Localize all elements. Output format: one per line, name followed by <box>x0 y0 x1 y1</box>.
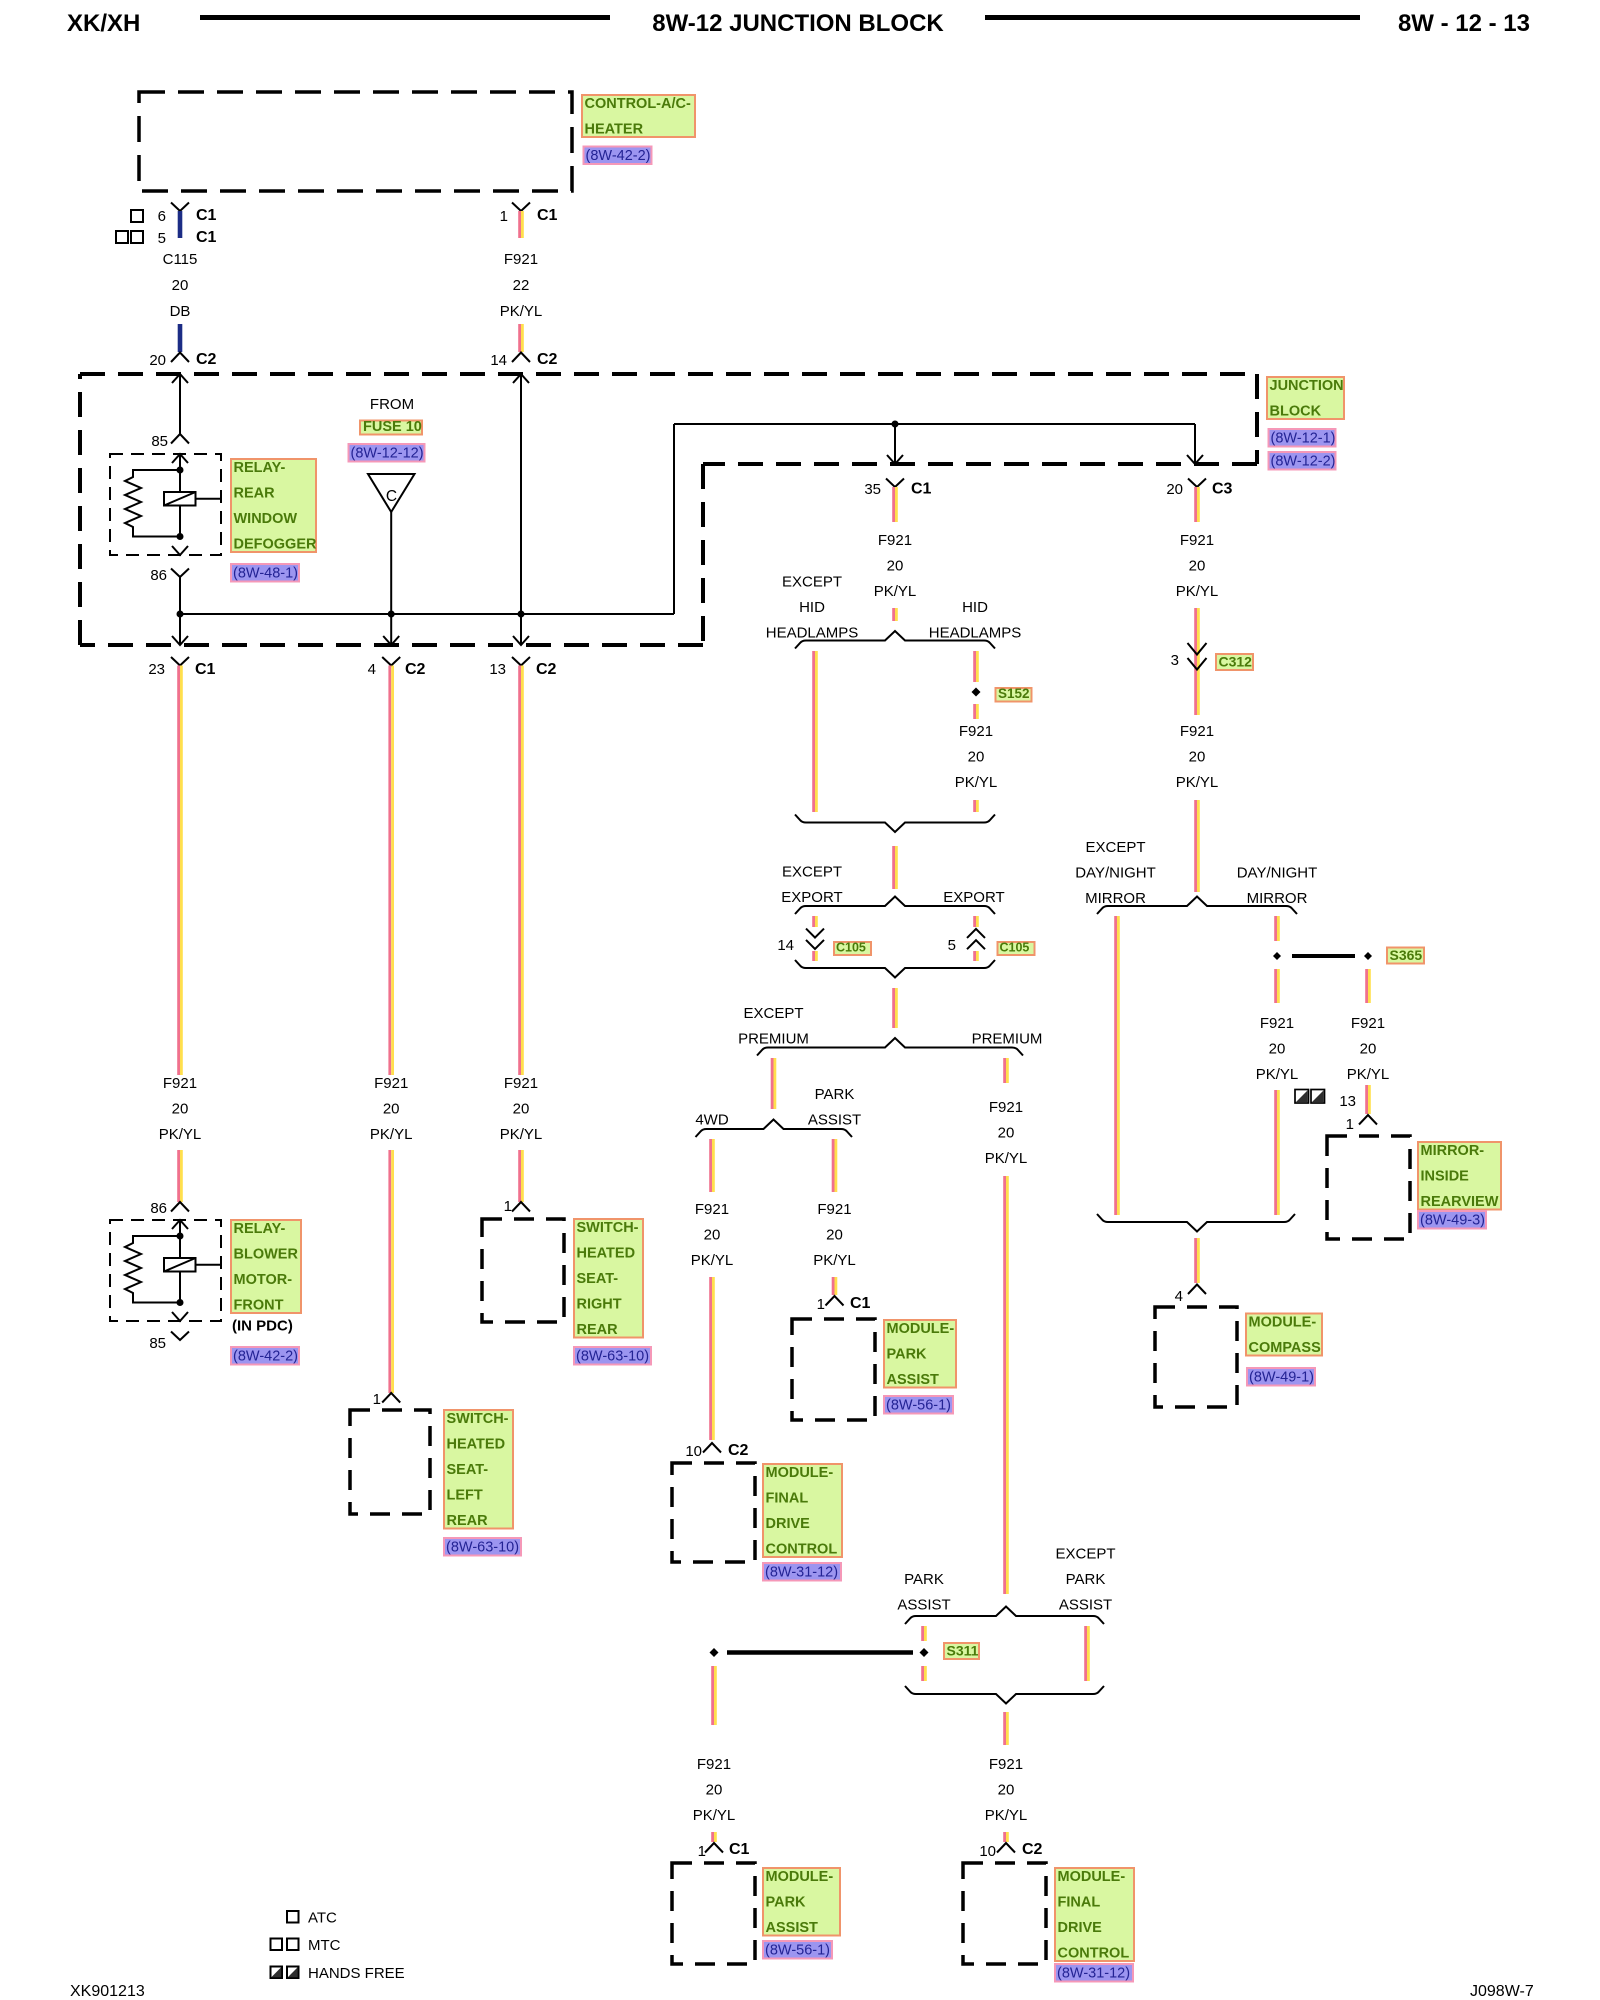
svg-text:PK/YL: PK/YL <box>985 1807 1028 1824</box>
svg-text:(8W-56-1): (8W-56-1) <box>886 1398 951 1414</box>
svg-text:MIRROR: MIRROR <box>1247 890 1308 907</box>
svg-text:ASSIST: ASSIST <box>1059 1597 1112 1614</box>
wire C115 DB lower segment <box>178 324 183 352</box>
brace join HID headlamps <box>795 815 995 833</box>
wire park assist branch to splice <box>921 1626 924 1641</box>
connector pin 6 C1 fork <box>171 203 189 212</box>
wire day/night below splice <box>1274 969 1277 1003</box>
wire F921 to blower relay <box>177 1150 180 1202</box>
brace split export <box>795 897 995 915</box>
brace join park assist bottom <box>905 1686 1104 1704</box>
svg-text:PK/YL: PK/YL <box>1256 1066 1299 1083</box>
relay defogger node bottom <box>177 533 184 540</box>
wire lower segment bottom left <box>711 1832 714 1842</box>
svg-text:MODULE-: MODULE- <box>766 1869 834 1885</box>
svg-text:PARK: PARK <box>766 1895 807 1911</box>
svg-text:DB: DB <box>170 303 191 320</box>
label JUNCTION BLOCK <box>1267 377 1344 419</box>
junction block dashed outline <box>80 372 1257 376</box>
svg-text:F921: F921 <box>504 1075 538 1092</box>
wire 4wd branch lower <box>709 1277 712 1440</box>
mirror pin 1 fork <box>1359 1115 1377 1125</box>
label (8W-31-12) upper <box>763 1563 841 1581</box>
brace join export <box>795 960 995 978</box>
svg-text:HEADLAMPS: HEADLAMPS <box>929 625 1022 642</box>
exit arrow to 23 C1 <box>179 614 181 645</box>
module-park assist dashed box upper <box>792 1319 875 1420</box>
entry arrow at pin 14 C2 <box>513 374 529 383</box>
svg-text:C105: C105 <box>1000 941 1030 955</box>
svg-text:14: 14 <box>490 352 507 369</box>
splice S311 node <box>920 1648 929 1657</box>
mirror-inside rearview dashed box <box>1327 1136 1410 1239</box>
svg-text:20: 20 <box>1360 1041 1377 1058</box>
connector 5 C105 double chevron <box>967 929 985 938</box>
header rule left <box>200 15 610 20</box>
svg-text:HEATED: HEATED <box>447 1437 506 1453</box>
relay blower resistor <box>125 1236 180 1303</box>
wire park assist branch below splice <box>921 1666 924 1681</box>
label SWITCH-HEATED SEAT-LEFT REAR <box>444 1410 513 1529</box>
svg-text:20: 20 <box>998 1125 1015 1142</box>
connector 10 C2 bottom fork <box>997 1843 1015 1853</box>
svg-text:PK/YL: PK/YL <box>1347 1066 1390 1083</box>
svg-text:SEAT-: SEAT- <box>447 1462 489 1478</box>
switch heated seat right pin 1 fork <box>512 1202 530 1212</box>
wire premium branch long run <box>1003 1176 1006 1594</box>
label (8W-49-3) <box>1418 1211 1486 1229</box>
svg-text:1: 1 <box>698 1843 706 1860</box>
svg-text:F921: F921 <box>817 1201 851 1218</box>
svg-text:C312: C312 <box>1219 654 1253 670</box>
svg-text:C1: C1 <box>729 1841 750 1858</box>
svg-text:(8W-63-10): (8W-63-10) <box>446 1540 519 1556</box>
compass pin 4 fork <box>1188 1285 1206 1295</box>
splice S311 tap wire <box>727 1650 913 1655</box>
wire export branch upper <box>973 916 976 927</box>
splice S365 tap wire <box>1292 954 1355 958</box>
svg-text:F921: F921 <box>374 1075 408 1092</box>
connector 20 C2 fork into junction block <box>171 353 189 363</box>
svg-text:20: 20 <box>887 558 904 575</box>
label RELAY-REAR WINDOW DEFOGGER <box>231 459 316 552</box>
svg-text:C1: C1 <box>196 229 217 246</box>
svg-text:HID: HID <box>962 599 988 616</box>
label MODULE-FINAL DRIVE CONTROL upper <box>763 1464 842 1557</box>
svg-text:ASSIST: ASSIST <box>887 1372 940 1388</box>
svg-text:13: 13 <box>1339 1093 1356 1110</box>
svg-text:8W-12 JUNCTION BLOCK: 8W-12 JUNCTION BLOCK <box>652 10 944 37</box>
module-compass dashed box <box>1155 1307 1237 1407</box>
svg-text:JUNCTION: JUNCTION <box>1270 378 1344 394</box>
brace split 4wd / park assist <box>696 1120 853 1138</box>
svg-text:EXCEPT: EXCEPT <box>1085 839 1145 856</box>
relay blower coil box <box>164 1258 196 1272</box>
wire park assist branch upper <box>832 1139 835 1192</box>
label S152 <box>996 688 1032 702</box>
svg-text:23: 23 <box>148 661 165 678</box>
relay pin 85 fork <box>171 434 189 444</box>
svg-text:EXCEPT: EXCEPT <box>743 1005 803 1022</box>
hands free icon squares <box>1295 1090 1309 1104</box>
legend HANDS FREE squares <box>271 1967 283 1979</box>
svg-text:PK/YL: PK/YL <box>691 1252 734 1269</box>
svg-text:5: 5 <box>158 230 166 247</box>
svg-text:EXCEPT: EXCEPT <box>782 574 842 591</box>
wire fuse triangle to bus <box>390 512 392 614</box>
svg-text:C2: C2 <box>405 661 426 678</box>
svg-text:PK/YL: PK/YL <box>1176 583 1219 600</box>
legend ATC square <box>287 1911 299 1923</box>
relay blower coil wire <box>179 1220 181 1303</box>
wire F921 22 PK/YL upper segment <box>518 211 521 238</box>
svg-text:86: 86 <box>150 567 167 584</box>
label MIRROR-INSIDE REARVIEW <box>1418 1142 1501 1210</box>
wire F921 to heated seat switch <box>388 1150 391 1393</box>
svg-text:XK901213: XK901213 <box>70 1983 145 2000</box>
wire to export split <box>892 846 895 889</box>
connector 20 C3 fork <box>1188 479 1206 488</box>
label (8W-42-2) for control-a/c-heater <box>584 147 652 165</box>
svg-text:C3: C3 <box>1212 481 1233 498</box>
svg-text:DRIVE: DRIVE <box>1058 1920 1103 1936</box>
svg-text:J098W-7: J098W-7 <box>1470 1983 1534 2000</box>
svg-text:RELAY-: RELAY- <box>234 460 286 476</box>
svg-text:MODULE-: MODULE- <box>1058 1869 1126 1885</box>
connector 3 C312 double chevron <box>1188 643 1207 655</box>
wire S365 tap down <box>1365 969 1368 1003</box>
blower relay pin 86 fork <box>171 1202 189 1212</box>
svg-text:SEAT-: SEAT- <box>577 1271 619 1287</box>
svg-text:F921: F921 <box>695 1201 729 1218</box>
svg-text:REAR: REAR <box>577 1322 619 1338</box>
svg-text:20: 20 <box>149 352 166 369</box>
connector 1 C1 park assist module fork <box>826 1296 844 1306</box>
svg-text:C1: C1 <box>195 661 216 678</box>
relay blower exit arrow <box>172 1312 188 1321</box>
wire S311 tap down to park assist module <box>711 1666 714 1725</box>
svg-text:C1: C1 <box>196 207 217 224</box>
svg-text:PK/YL: PK/YL <box>874 583 917 600</box>
svg-text:20: 20 <box>826 1227 843 1244</box>
label (8W-49-1) <box>1247 1368 1315 1386</box>
svg-text:COMPASS: COMPASS <box>1249 1340 1322 1356</box>
svg-text:1: 1 <box>1346 1116 1354 1133</box>
svg-text:REARVIEW: REARVIEW <box>1421 1194 1499 1210</box>
svg-text:86: 86 <box>150 1200 167 1217</box>
svg-text:CONTROL: CONTROL <box>1058 1946 1130 1962</box>
svg-text:10: 10 <box>979 1843 996 1860</box>
svg-text:EXCEPT: EXCEPT <box>1055 1546 1115 1563</box>
label (8W-12-1) <box>1269 429 1336 447</box>
svg-text:S365: S365 <box>1390 947 1423 963</box>
svg-text:PREMIUM: PREMIUM <box>972 1031 1043 1048</box>
svg-text:PK/YL: PK/YL <box>500 1126 543 1143</box>
svg-text:PK/YL: PK/YL <box>370 1126 413 1143</box>
svg-text:F921: F921 <box>504 251 538 268</box>
svg-text:20: 20 <box>998 1782 1015 1799</box>
label S365 <box>1387 948 1424 964</box>
label MODULE-PARK ASSIST bottom <box>763 1868 840 1936</box>
svg-text:DRIVE: DRIVE <box>766 1516 811 1532</box>
svg-text:C2: C2 <box>728 1442 749 1459</box>
wire to day/night mirror split <box>1194 800 1197 892</box>
svg-text:S152: S152 <box>998 686 1030 701</box>
brace split premium <box>757 1038 1023 1056</box>
bus wire horizontal lower <box>180 613 674 615</box>
brace split park assist bottom <box>905 1607 1104 1625</box>
svg-text:20: 20 <box>1189 558 1206 575</box>
svg-text:MODULE-: MODULE- <box>887 1321 955 1337</box>
wire premium branch upper <box>1003 1058 1006 1083</box>
svg-text:CONTROL-A/C-: CONTROL-A/C- <box>585 96 691 112</box>
svg-text:3: 3 <box>1171 652 1179 669</box>
svg-text:PK/YL: PK/YL <box>159 1126 202 1143</box>
svg-text:20: 20 <box>1189 749 1206 766</box>
connector pin 1 C1 fork <box>512 203 530 212</box>
svg-text:(8W-12-2): (8W-12-2) <box>1271 454 1336 470</box>
svg-text:14: 14 <box>777 937 794 954</box>
connector 13 C2 fork <box>512 657 530 666</box>
svg-text:20: 20 <box>704 1227 721 1244</box>
wire to compass module <box>1194 1238 1197 1283</box>
svg-text:C2: C2 <box>1022 1841 1043 1858</box>
label (8W-12-12) <box>349 444 425 462</box>
bus node at pin 14 feed <box>518 611 525 618</box>
svg-text:85: 85 <box>149 1335 166 1352</box>
label (8W-42-2) for blower relay <box>231 1347 299 1365</box>
wire F921 20 PK/YL from 23 C1 <box>177 666 180 1076</box>
svg-text:20: 20 <box>172 1101 189 1118</box>
relay defogger resistor <box>125 470 180 537</box>
connector 14 C105 double chevron <box>806 929 824 938</box>
svg-text:ASSIST: ASSIST <box>766 1920 819 1936</box>
connector 10 C2 final drive module fork <box>703 1443 721 1453</box>
svg-text:1: 1 <box>373 1391 381 1408</box>
wire F921 22 PK/YL lower segment <box>518 324 521 352</box>
label (8W-63-10) right <box>574 1347 651 1365</box>
relay defogger coil wire <box>179 454 181 537</box>
label (8W-48-1) <box>231 564 299 582</box>
label SWITCH-HEATED SEAT-RIGHT REAR <box>574 1219 643 1338</box>
svg-text:C2: C2 <box>196 351 217 368</box>
svg-text:PK/YL: PK/YL <box>693 1807 736 1824</box>
svg-text:SWITCH-: SWITCH- <box>577 1220 639 1236</box>
wire park assist branch lower <box>832 1277 835 1295</box>
svg-text:PARK: PARK <box>904 1571 944 1588</box>
svg-text:20: 20 <box>706 1782 723 1799</box>
wire day/night branch to join <box>1274 1090 1277 1215</box>
relay blower coil lead to case <box>196 1264 222 1266</box>
svg-text:(8W-31-12): (8W-31-12) <box>1057 1966 1130 1982</box>
svg-text:C1: C1 <box>537 207 558 224</box>
svg-text:HEATED: HEATED <box>577 1246 636 1262</box>
splice S311 left node <box>710 1648 719 1657</box>
blower relay pin 85 fork <box>171 1332 189 1341</box>
module-park assist dashed box bottom <box>672 1863 755 1964</box>
label C105 left <box>834 942 871 955</box>
relay blower node top <box>177 1233 184 1240</box>
module-final drive control dashed box upper <box>672 1463 755 1562</box>
label MODULE-PARK ASSIST upper <box>884 1320 956 1388</box>
switch heated seat left pin 1 fork <box>382 1393 400 1403</box>
relay defogger node top <box>177 467 184 474</box>
svg-text:CONTROL: CONTROL <box>766 1542 838 1558</box>
svg-text:RELAY-: RELAY- <box>234 1221 286 1237</box>
svg-text:10: 10 <box>685 1443 702 1460</box>
svg-text:F921: F921 <box>1351 1015 1385 1032</box>
label C312 <box>1216 654 1253 670</box>
wire export branch lower <box>973 951 976 961</box>
svg-text:PK/YL: PK/YL <box>955 774 998 791</box>
svg-text:(IN PDC): (IN PDC) <box>232 1318 293 1335</box>
label (8W-63-10) left <box>444 1538 521 1556</box>
svg-text:ASSIST: ASSIST <box>897 1597 950 1614</box>
wire pin 14 down to bus <box>520 374 522 614</box>
label (8W-56-1) upper <box>884 1396 953 1414</box>
svg-text:F921: F921 <box>1260 1015 1294 1032</box>
label MODULE-FINAL DRIVE CONTROL bottom <box>1055 1868 1134 1961</box>
control-a/c-heater dashed box <box>139 92 572 191</box>
svg-text:MODULE-: MODULE- <box>1249 1315 1317 1331</box>
legend MTC squares <box>271 1939 283 1951</box>
svg-text:(8W-12-12): (8W-12-12) <box>351 446 424 462</box>
svg-text:20: 20 <box>172 277 189 294</box>
wire to mirror pin <box>1365 1085 1368 1114</box>
svg-text:EXPORT: EXPORT <box>943 889 1004 906</box>
svg-text:DEFOGGER: DEFOGGER <box>234 537 318 553</box>
wire day/night branch upper <box>1274 916 1277 941</box>
wire pin20 to relay pin 85 <box>179 374 181 434</box>
svg-text:S311: S311 <box>947 1643 979 1659</box>
svg-text:MODULE-: MODULE- <box>766 1465 834 1481</box>
svg-text:PARK: PARK <box>887 1347 928 1363</box>
svg-text:HID: HID <box>799 599 825 616</box>
svg-text:20: 20 <box>1166 481 1183 498</box>
bus wire horizontal upper <box>674 423 1195 425</box>
svg-text:F921: F921 <box>989 1756 1023 1773</box>
exit arrow to 35 C1 <box>894 424 896 464</box>
wire C115 DB upper segment <box>178 211 183 238</box>
svg-text:C115: C115 <box>163 251 198 268</box>
wire except-export branch lower <box>812 951 815 961</box>
svg-text:PARK: PARK <box>1066 1571 1106 1588</box>
svg-text:F921: F921 <box>989 1099 1023 1116</box>
svg-text:1: 1 <box>500 208 508 225</box>
svg-text:(8W-48-1): (8W-48-1) <box>233 566 298 582</box>
relay defogger coil box <box>164 492 196 506</box>
wire to premium split <box>892 988 895 1028</box>
label C105 right <box>998 942 1035 955</box>
connector 23 C1 fork <box>171 657 189 666</box>
svg-text:F921: F921 <box>878 532 912 549</box>
wire lower segment bottom right <box>1003 1832 1006 1842</box>
relay-blower motor-front dashed box <box>110 1220 221 1321</box>
svg-text:35: 35 <box>864 481 881 498</box>
wire except-export branch upper <box>812 916 815 927</box>
switch-heated seat-left rear dashed box <box>350 1410 430 1514</box>
switch-heated seat-right rear dashed box <box>482 1219 564 1322</box>
svg-text:FRONT: FRONT <box>234 1298 284 1314</box>
wire except park assist branch <box>1084 1626 1087 1681</box>
svg-text:C1: C1 <box>911 481 932 498</box>
svg-text:DAY/NIGHT: DAY/NIGHT <box>1075 865 1156 882</box>
svg-text:PK/YL: PK/YL <box>500 303 543 320</box>
svg-text:4: 4 <box>368 661 376 678</box>
brace join mirror branches <box>1097 1214 1295 1232</box>
svg-text:F921: F921 <box>1180 723 1214 740</box>
connector 1 C1 bottom fork <box>705 1843 723 1853</box>
svg-text:20: 20 <box>513 1101 530 1118</box>
wire HID branch upper <box>973 651 976 682</box>
svg-text:4: 4 <box>1175 1288 1183 1305</box>
relay pin 86 fork <box>171 569 189 578</box>
connector 4 C2 fork <box>382 657 400 666</box>
svg-text:PK/YL: PK/YL <box>1176 774 1219 791</box>
bus node at fuse feed <box>388 611 395 618</box>
svg-text:PARK: PARK <box>815 1086 855 1103</box>
svg-text:FINAL: FINAL <box>1058 1895 1101 1911</box>
module-final drive control dashed box bottom <box>963 1863 1046 1964</box>
header rule right <box>985 15 1360 20</box>
svg-text:INSIDE: INSIDE <box>1421 1169 1470 1185</box>
svg-text:REAR: REAR <box>234 486 276 502</box>
svg-text:PREMIUM: PREMIUM <box>738 1031 809 1048</box>
wire F921 to C312 <box>1194 608 1197 715</box>
svg-text:PK/YL: PK/YL <box>813 1252 856 1269</box>
exit arrow to 13 C2 <box>520 614 522 645</box>
wire HID branch below splice <box>973 704 976 719</box>
svg-text:EXPORT: EXPORT <box>781 889 842 906</box>
svg-text:20: 20 <box>968 749 985 766</box>
exit arrow to 4 C2 <box>390 614 392 645</box>
bus node at defogger output <box>177 611 184 618</box>
svg-text:FINAL: FINAL <box>766 1491 809 1507</box>
wire F921 20 PK/YL from 13 C2 <box>518 666 521 1076</box>
svg-text:C2: C2 <box>537 351 558 368</box>
connector 14 C2 fork into junction block <box>512 353 530 363</box>
svg-text:PK/YL: PK/YL <box>985 1150 1028 1167</box>
brace split day/night mirror <box>1097 897 1297 915</box>
bus node to 35 C1 <box>892 421 899 428</box>
svg-text:REAR: REAR <box>447 1513 489 1529</box>
label CONTROL-A/C-HEATER <box>582 95 695 137</box>
svg-text:F921: F921 <box>959 723 993 740</box>
svg-text:F921: F921 <box>1180 532 1214 549</box>
svg-text:FUSE 10: FUSE 10 <box>363 419 422 435</box>
svg-text:5: 5 <box>948 937 956 954</box>
svg-text:22: 22 <box>513 277 530 294</box>
svg-text:(8W-42-2): (8W-42-2) <box>586 148 651 164</box>
svg-text:HEADLAMPS: HEADLAMPS <box>766 625 859 642</box>
svg-text:MIRROR: MIRROR <box>1085 890 1146 907</box>
wire HID branch to join <box>973 800 976 812</box>
svg-text:20: 20 <box>1269 1041 1286 1058</box>
svg-text:(8W-31-12): (8W-31-12) <box>765 1565 838 1581</box>
label S311 <box>944 1643 979 1659</box>
svg-text:WINDOW: WINDOW <box>234 511 298 527</box>
svg-text:(8W-42-2): (8W-42-2) <box>233 1349 298 1365</box>
svg-text:C1: C1 <box>850 1295 871 1312</box>
svg-text:EXCEPT: EXCEPT <box>782 864 842 881</box>
svg-text:(8W-56-1): (8W-56-1) <box>765 1943 830 1959</box>
svg-text:(8W-49-3): (8W-49-3) <box>1420 1213 1485 1229</box>
wire F921 to heated seat right switch <box>518 1150 521 1202</box>
wire except-premium branch <box>771 1058 774 1109</box>
svg-text:BLOCK: BLOCK <box>1270 404 1322 420</box>
svg-text:(8W-49-1): (8W-49-1) <box>1249 1370 1314 1386</box>
svg-text:F921: F921 <box>163 1075 197 1092</box>
